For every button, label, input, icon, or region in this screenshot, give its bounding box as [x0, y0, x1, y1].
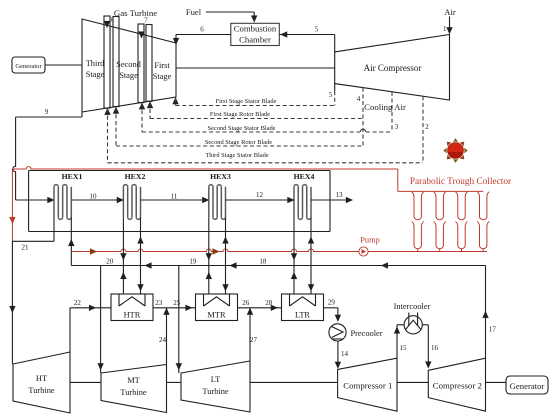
svg-text:Compressor 2: Compressor 2 [433, 380, 482, 390]
svg-text:15: 15 [400, 344, 408, 352]
svg-text:Second Stage Stator Blade: Second Stage Stator Blade [208, 125, 276, 132]
svg-text:First: First [154, 61, 170, 70]
svg-text:12: 12 [256, 191, 264, 199]
svg-text:MTR: MTR [207, 311, 226, 320]
svg-text:Parabolic Trough Collector: Parabolic Trough Collector [410, 177, 512, 187]
svg-text:6: 6 [200, 26, 204, 34]
svg-text:Intercooler: Intercooler [394, 302, 431, 311]
svg-text:HT: HT [36, 374, 47, 383]
svg-text:16: 16 [431, 344, 439, 352]
svg-text:HEX2: HEX2 [125, 172, 146, 181]
svg-text:Generator: Generator [15, 63, 42, 70]
svg-text:23: 23 [155, 299, 163, 307]
svg-text:24: 24 [159, 336, 167, 344]
svg-text:HEX4: HEX4 [294, 172, 315, 181]
svg-text:20: 20 [106, 258, 114, 266]
svg-text:4: 4 [357, 95, 361, 103]
svg-text:3: 3 [395, 123, 399, 131]
svg-text:Third: Third [86, 59, 105, 68]
svg-text:Turbine: Turbine [202, 387, 228, 396]
svg-text:Compressor 1: Compressor 1 [343, 380, 392, 390]
svg-text:Stage: Stage [86, 70, 105, 79]
svg-text:17: 17 [489, 326, 497, 334]
svg-text:Fuel: Fuel [186, 7, 202, 17]
svg-text:Turbine: Turbine [120, 388, 146, 397]
svg-text:28: 28 [265, 299, 273, 307]
svg-text:Cooling Air: Cooling Air [364, 102, 406, 112]
svg-text:18: 18 [259, 258, 267, 266]
svg-text:22: 22 [74, 299, 82, 307]
svg-text:19: 19 [189, 258, 197, 266]
svg-text:First Stage Stator Blade: First Stage Stator Blade [216, 98, 277, 105]
svg-text:27: 27 [250, 336, 258, 344]
svg-text:LT: LT [211, 375, 220, 384]
svg-text:Air: Air [444, 7, 456, 17]
svg-text:26: 26 [242, 299, 250, 307]
svg-text:11: 11 [171, 192, 178, 200]
svg-text:Air Compressor: Air Compressor [364, 63, 422, 73]
svg-text:7: 7 [144, 18, 148, 25]
svg-text:Chamber: Chamber [239, 34, 271, 44]
svg-text:14: 14 [341, 350, 349, 358]
svg-text:First Stage Rotor Blade: First Stage Rotor Blade [210, 111, 270, 118]
svg-text:Second Stage Rotor Blade: Second Stage Rotor Blade [205, 139, 272, 146]
svg-text:Pump: Pump [360, 236, 380, 245]
svg-text:Third Stage Stator Blade: Third Stage Stator Blade [205, 152, 269, 159]
svg-text:HTR: HTR [124, 311, 141, 320]
svg-text:LTR: LTR [295, 311, 310, 320]
svg-text:25: 25 [173, 299, 181, 307]
svg-text:Stage: Stage [153, 72, 172, 81]
svg-text:HEX3: HEX3 [210, 172, 231, 181]
svg-text:HEX1: HEX1 [62, 172, 83, 181]
svg-text:MT: MT [127, 376, 140, 385]
svg-text:Generator: Generator [510, 381, 545, 391]
svg-text:5: 5 [329, 91, 333, 99]
svg-text:29: 29 [328, 299, 336, 307]
svg-text:Stage: Stage [119, 71, 138, 80]
svg-text:Precooler: Precooler [350, 329, 382, 338]
svg-text:5: 5 [315, 26, 319, 34]
svg-text:1: 1 [443, 25, 447, 33]
svg-text:Combustion: Combustion [234, 24, 277, 34]
svg-text:9: 9 [45, 108, 49, 116]
svg-text:13: 13 [336, 191, 344, 199]
svg-text:2: 2 [425, 123, 429, 131]
svg-text:8: 8 [111, 17, 114, 24]
svg-text:10: 10 [90, 192, 98, 200]
svg-text:21: 21 [22, 244, 30, 252]
svg-text:Turbine: Turbine [28, 386, 54, 395]
svg-text:Gas Turbine: Gas Turbine [114, 8, 157, 18]
